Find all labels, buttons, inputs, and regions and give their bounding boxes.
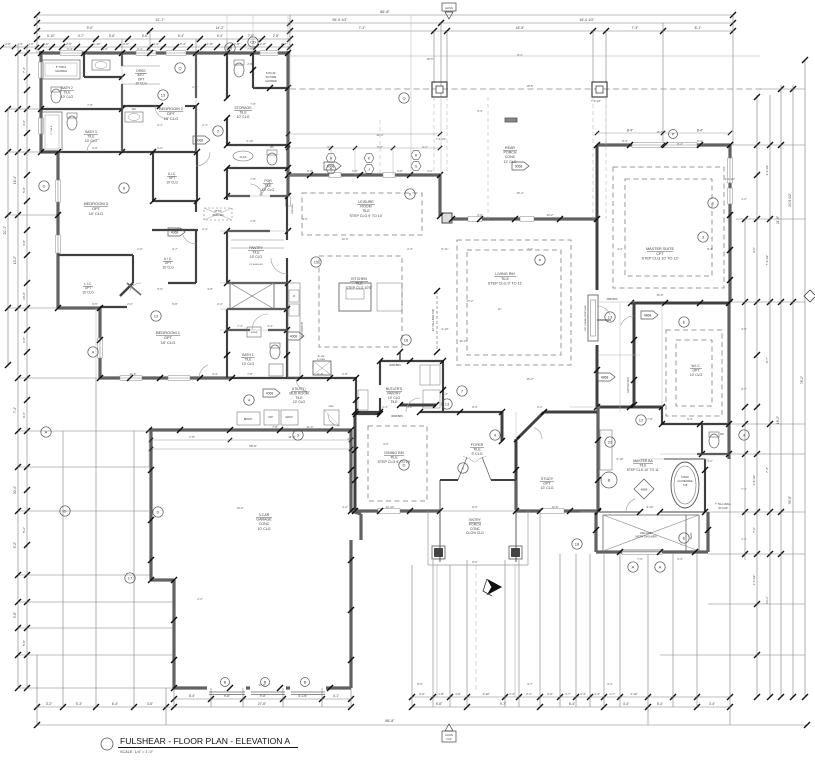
- svg-text:3068 BRS: 3068 BRS: [389, 363, 401, 367]
- svg-text:Q: Q: [178, 66, 181, 71]
- svg-text:4'-2": 4'-2": [707, 459, 713, 463]
- svg-text:13: 13: [154, 314, 159, 319]
- svg-text:7'-9 1/2": 7'-9 1/2": [591, 99, 601, 103]
- dimension column left 1: [7, 109, 9, 365]
- wc toilet right of clas: [267, 153, 277, 165]
- svg-text:7'-6": 7'-6": [189, 435, 195, 439]
- svg-text:3'-8": 3'-8": [207, 287, 213, 291]
- svg-text:8'-6": 8'-6": [417, 682, 423, 686]
- svg-text:1'-4": 1'-4": [580, 692, 586, 696]
- svg-text:95'-9 1/2": 95'-9 1/2": [332, 18, 348, 22]
- circled tags: [175, 63, 185, 73]
- interior wall: shower divider bath2: [83, 53, 85, 77]
- svg-text:7' TALL WALL: 7' TALL WALL: [715, 502, 732, 506]
- door arc study: [534, 428, 542, 439]
- pentagon door tags: [193, 136, 210, 144]
- svg-text:BATH 1: BATH 1: [242, 353, 254, 357]
- wall: utility top interior: [232, 377, 356, 379]
- extension lines right walls: [760, 88, 805, 90]
- svg-text:30'-4": 30'-4": [13, 486, 17, 494]
- dimension row bottom left: [37, 706, 351, 708]
- svg-text:4'-6": 4'-6": [752, 247, 756, 253]
- svg-text:16'-0 1/2": 16'-0 1/2": [579, 18, 595, 22]
- svg-text:TILE: TILE: [63, 90, 71, 94]
- dimension row top 3: [37, 30, 733, 32]
- interior wall: mud hall: [356, 413, 380, 415]
- corner post leisure: [442, 213, 452, 223]
- door arc storage: [260, 182, 270, 196]
- door arc master hall: [597, 306, 610, 315]
- wall: master bath left exterior: [596, 407, 599, 512]
- svg-text:DINING RM: DINING RM: [384, 451, 403, 455]
- svg-text:76'-2": 76'-2": [800, 376, 804, 384]
- svg-text:1'-4": 1'-4": [509, 692, 515, 696]
- svg-text:7'-3": 7'-3": [632, 26, 640, 30]
- svg-text:18: 18: [575, 542, 580, 547]
- foyer entry double doors: [458, 457, 467, 480]
- dimension column right 6: [804, 60, 806, 697]
- svg-text:6'-4": 6'-4": [687, 417, 693, 421]
- svg-text:4'-6 1/2": 4'-6 1/2": [765, 165, 769, 176]
- interior wall: pantry top: [227, 230, 270, 232]
- wall: entry porch right: [515, 480, 517, 562]
- svg-text:8'-6": 8'-6": [472, 405, 478, 409]
- svg-text:POR: POR: [264, 179, 272, 183]
- svg-text:7'-8": 7'-8": [247, 372, 253, 376]
- svg-text:8'-4": 8'-4": [697, 139, 703, 143]
- wall: bath right lower: [706, 512, 709, 552]
- align tag bottom: [445, 724, 453, 731]
- svg-text:PORCH: PORCH: [504, 151, 517, 155]
- svg-text:13' CLG: 13' CLG: [540, 486, 553, 490]
- interior wall: wc row bottom / por top: [227, 167, 288, 169]
- svg-text:11'-6": 11'-6": [288, 435, 295, 439]
- wall: study diagonal: [517, 412, 544, 439]
- svg-text:4'-2": 4'-2": [342, 505, 348, 509]
- svg-text:FULSHEAR - FLOOR PLAN - E: FULSHEAR - FLOOR PLAN - ELEVATION A: [120, 736, 290, 746]
- svg-text:SEAT: SEAT: [689, 532, 693, 539]
- wall: shower bottom exterior: [596, 550, 708, 553]
- wall: wic step: [661, 407, 663, 424]
- interior wall: drsg right x196: [195, 53, 197, 98]
- svg-text:8'-8": 8'-8": [377, 145, 383, 149]
- svg-text:5' TUB &: 5' TUB &: [56, 65, 67, 69]
- svg-text:TILE: TILE: [501, 277, 509, 281]
- svg-text:TILE: TILE: [264, 183, 272, 187]
- svg-text:10' CLG: 10' CLG: [162, 265, 174, 269]
- svg-text:9'-7": 9'-7": [527, 682, 533, 686]
- svg-text:4'-2": 4'-2": [617, 247, 623, 251]
- garage interior dim rows: [151, 439, 351, 441]
- svg-text:4068: 4068: [196, 139, 204, 143]
- svg-text:WC: WC: [132, 108, 136, 111]
- svg-text:MASTER BA: MASTER BA: [633, 459, 653, 463]
- interior wall: future shower bottom: [253, 87, 288, 89]
- svg-text:11'-8": 11'-8": [317, 372, 324, 376]
- wc toilet master: [709, 434, 719, 448]
- svg-text:REAR: REAR: [505, 146, 515, 150]
- svg-text:12'-10": 12'-10": [386, 505, 395, 509]
- shower seat divider: [685, 515, 687, 551]
- rear porch column left: [432, 82, 447, 97]
- interior wall: hall x196 lower: [195, 201, 197, 212]
- wall: entry porch left: [439, 480, 441, 562]
- master top windows: [632, 143, 697, 148]
- door arc pantry: [271, 258, 287, 274]
- kitchen island solid: [339, 283, 371, 311]
- window break bedroom1 left wall: [98, 338, 103, 358]
- wall: butlers pantry top: [380, 360, 443, 362]
- svg-text:9'-0": 9'-0": [87, 26, 95, 30]
- large circle B master bath: [601, 472, 617, 488]
- svg-text:3'-4": 3'-4": [709, 702, 715, 706]
- entry porch column right: [509, 546, 522, 559]
- svg-text:2'-0": 2'-0": [547, 692, 553, 696]
- clas oval: [233, 151, 253, 161]
- svg-text:5'-8": 5'-8": [342, 372, 348, 376]
- svg-text:ALONE/FREE: ALONE/FREE: [677, 480, 693, 483]
- svg-text:TILE: TILE: [87, 134, 95, 138]
- interior wall: bath1 top: [227, 329, 250, 331]
- svg-text:3080 BRS: 3080 BRS: [607, 298, 618, 301]
- svg-text:9'-11": 9'-11": [442, 247, 449, 251]
- svg-text:P: P: [672, 132, 675, 137]
- svg-text:3'-0": 3'-0": [43, 42, 49, 46]
- svg-text:11'-8": 11'-8": [130, 372, 137, 376]
- dimension column right 5: [792, 85, 794, 697]
- align tag top: [442, 3, 456, 11]
- door arc bedroom1: [199, 365, 208, 378]
- dimension row top 5: [41, 46, 290, 48]
- wall: garage right exterior: [349, 430, 352, 511]
- svg-text:FOYER: FOYER: [471, 443, 484, 447]
- svg-text:9'-8": 9'-8": [407, 405, 413, 409]
- dimension row bottom overall: [37, 724, 807, 726]
- svg-text:2'-10": 2'-10": [246, 139, 253, 143]
- svg-text:9'-0": 9'-0": [477, 213, 483, 217]
- svg-text:9'-8": 9'-8": [307, 169, 313, 173]
- porch interior dashed lines: [487, 97, 489, 219]
- svg-text:STORAGE: STORAGE: [234, 106, 252, 110]
- dimension row bottom right 2: [412, 706, 730, 708]
- svg-text:1'-2": 1'-2": [741, 197, 747, 201]
- svg-text:CONC: CONC: [505, 155, 516, 159]
- svg-text:18: 18: [404, 338, 409, 343]
- svg-text:PORCH: PORCH: [469, 522, 482, 526]
- svg-text:5'-4": 5'-4": [477, 109, 483, 113]
- svg-text:10' CLG: 10' CLG: [166, 180, 178, 184]
- svg-text:3'-4": 3'-4": [212, 372, 218, 376]
- ext lines above leisure wall: [330, 148, 332, 175]
- door arc garage entry: [328, 414, 340, 426]
- svg-text:5'-8": 5'-8": [172, 302, 178, 306]
- svg-text:4'-8": 4'-8": [22, 240, 26, 246]
- svg-text:3080 BRS: 3080 BRS: [292, 203, 294, 214]
- wall: master suite right exterior: [728, 145, 731, 302]
- door arc uic2: [183, 235, 196, 244]
- svg-text:TILE: TILE: [390, 400, 398, 404]
- master suite tray dashed inner: [625, 179, 712, 276]
- window break bath2 left wall: [39, 62, 44, 78]
- bath2 lav: [92, 60, 110, 70]
- wall: living bottom: [400, 404, 436, 407]
- svg-text:A: A: [659, 565, 662, 570]
- svg-text:PANTRY: PANTRY: [387, 391, 401, 395]
- diamond tag 4868 master bath: [634, 479, 654, 499]
- wall: leisure top exterior: [288, 173, 440, 176]
- svg-text:4068: 4068: [266, 392, 274, 396]
- svg-text:B: B: [224, 680, 227, 685]
- svg-text:15'-4": 15'-4": [516, 191, 523, 195]
- svg-text:31'-4": 31'-4": [376, 133, 383, 137]
- wall: study left: [515, 439, 518, 510]
- svg-text:STEP CLG 9' TO 10': STEP CLG 9' TO 10': [350, 214, 383, 218]
- dimension row bottom garage: [174, 698, 351, 700]
- svg-text:10'-2": 10'-2": [546, 213, 553, 217]
- svg-text:13'-1": 13'-1": [765, 596, 769, 604]
- window breaks top wall: [60, 51, 82, 56]
- svg-text:9'-4": 9'-4": [607, 682, 613, 686]
- svg-text:I: I: [462, 466, 463, 471]
- svg-text:18'-5": 18'-5": [526, 84, 533, 88]
- svg-text:2'-8": 2'-8": [281, 42, 287, 46]
- door arc butlers: [406, 398, 420, 412]
- svg-text:TILE: TILE: [639, 463, 647, 467]
- title circle: [101, 738, 113, 750]
- svg-text:8'-1": 8'-1": [517, 53, 523, 57]
- svg-text:15'-2": 15'-2": [526, 377, 533, 381]
- svg-text:7'-6 1/2": 7'-6 1/2": [765, 255, 769, 266]
- svg-text:10' CLG: 10' CLG: [89, 211, 104, 216]
- svg-text:9'-5": 9'-5": [92, 302, 98, 306]
- svg-text:3'-2": 3'-2": [46, 702, 52, 706]
- svg-text:13: 13: [161, 93, 166, 98]
- svg-text:8'-6": 8'-6": [472, 560, 478, 564]
- svg-text:16'-8": 16'-8": [656, 293, 663, 297]
- svg-text:CPT: CPT: [656, 252, 664, 256]
- svg-text:6'x6'x42": 6'x6'x42": [266, 71, 276, 75]
- rear porch roofline dashed: [290, 88, 763, 90]
- master shower enclosure with X: [603, 515, 699, 551]
- dimension column right 1: [744, 219, 746, 560]
- svg-text:39'-8": 39'-8": [788, 496, 792, 504]
- svg-text:D: D: [403, 463, 406, 468]
- bath3 tub vertical: [42, 112, 62, 152]
- svg-text:10'-0": 10'-0": [22, 292, 26, 300]
- svg-text:10' CLG: 10' CLG: [85, 139, 98, 143]
- svg-text:CONC: CONC: [470, 527, 481, 531]
- window breaks bedroom1 bottom wall: [120, 376, 142, 381]
- svg-text:W/ CAP: W/ CAP: [718, 506, 727, 510]
- attic pull-down dashed: [204, 208, 232, 220]
- svg-text:A: A: [45, 430, 48, 435]
- svg-text:2'-8": 2'-8": [250, 219, 256, 223]
- svg-text:4868: 4868: [641, 488, 648, 492]
- dimension row top 1 (86-8): [37, 14, 733, 16]
- svg-text:1'-7": 1'-7": [609, 692, 615, 696]
- interior extension lines vertical: [95, 308, 97, 378]
- svg-text:3-CAR: 3-CAR: [259, 513, 270, 517]
- wall: garage top exterior: [149, 428, 351, 431]
- interior wall: uic2 top: [152, 229, 198, 231]
- leisure room tray ceiling dashed: [302, 193, 422, 235]
- svg-text:8'-4": 8'-4": [189, 694, 195, 698]
- door arc utility: [296, 378, 310, 392]
- svg-text:1'-8": 1'-8": [455, 692, 461, 696]
- svg-text:9'-6": 9'-6": [22, 412, 26, 418]
- wall: butlers pantry right: [442, 361, 444, 411]
- svg-text:2'-4": 2'-4": [202, 227, 208, 231]
- svg-text:5'-10": 5'-10": [47, 34, 55, 38]
- svg-text:BATH 3: BATH 3: [85, 130, 97, 134]
- wall: left block left exterior upper: [39, 51, 42, 152]
- svg-text:16'-2": 16'-2": [776, 416, 780, 424]
- dimension column left 2: [17, 45, 19, 688]
- wall: rear porch south exterior (living top): [452, 217, 597, 220]
- svg-text:7'-4": 7'-4": [765, 467, 769, 473]
- svg-text:10' CLG: 10' CLG: [135, 82, 147, 86]
- interior wall: uic2 right: [195, 230, 197, 283]
- svg-text:WASH: WASH: [285, 416, 292, 419]
- svg-text:10' CLG: 10' CLG: [262, 188, 275, 192]
- bath1 shower: [247, 327, 261, 337]
- door arc drsg: [155, 106, 168, 119]
- door arc bath3: [87, 139, 100, 152]
- svg-text:9'-8": 9'-8": [397, 169, 403, 173]
- door arc bath1: [252, 314, 268, 330]
- svg-text:TILE: TILE: [295, 396, 303, 400]
- wall: garage left step: [151, 578, 174, 581]
- svg-text:TILE: TILE: [239, 111, 247, 115]
- svg-text:SHOWER: SHOWER: [55, 69, 67, 73]
- svg-text:TILE: TILE: [390, 456, 398, 460]
- extension lines from top walls: [36, 15, 38, 53]
- wall: right exterior wic/wc: [727, 303, 730, 459]
- svg-text:BUTLER'S: BUTLER'S: [386, 387, 403, 391]
- svg-text:H: H: [415, 154, 418, 158]
- svg-text:4068: 4068: [290, 335, 298, 339]
- drsg closet shelf: [122, 65, 160, 67]
- svg-text:B: B: [608, 478, 611, 483]
- wall: storage right exterior: [286, 51, 289, 196]
- wall: bedroom3 left exterior: [56, 152, 59, 308]
- interior extension lines horizontal: [8, 108, 41, 110]
- svg-text:SCALE: 1/4" = 1'-0": SCALE: 1/4" = 1'-0": [120, 750, 154, 754]
- walkway lines from entry porch: [436, 565, 438, 697]
- wall junction ticks: [38, 50, 44, 56]
- wic shelving dashed: [666, 330, 722, 416]
- dim row above leisure wall: [288, 147, 440, 149]
- bath2 tub: [42, 60, 80, 79]
- svg-text:8'-4": 8'-4": [677, 142, 683, 146]
- svg-text:3'-8 1/2": 3'-8 1/2": [752, 475, 756, 486]
- svg-text:BATH 2: BATH 2: [61, 86, 73, 90]
- svg-text:2'-6": 2'-6": [192, 85, 198, 89]
- svg-text:9068: 9068: [327, 165, 335, 169]
- svg-text:16'-4": 16'-4": [13, 176, 17, 184]
- title underline: [118, 747, 298, 749]
- svg-text:Q: Q: [402, 96, 405, 101]
- interior wall: uic1 bottom: [153, 200, 197, 202]
- utility bench/dry/wash: [237, 412, 260, 425]
- leisure top windows: [329, 173, 341, 178]
- hex tags above leisure wall: [326, 154, 336, 163]
- svg-text:10'-2": 10'-2": [13, 256, 17, 264]
- garage door B tags: [221, 678, 230, 687]
- dimension row top 4: [37, 38, 290, 40]
- svg-text:4'-0": 4'-0": [123, 42, 129, 46]
- wall: master suite top exterior: [597, 143, 730, 146]
- chase with X brace: [230, 283, 274, 309]
- svg-text:E: E: [683, 536, 686, 541]
- svg-text:2'-6": 2'-6": [127, 302, 133, 306]
- kitchen counter right: [377, 283, 402, 311]
- svg-text:OPT LINEAR FIREPLACE: OPT LINEAR FIREPLACE: [584, 305, 587, 331]
- svg-text:TILE: TILE: [362, 209, 370, 213]
- svg-text:3'-0": 3'-0": [302, 217, 308, 221]
- living room tray ceiling dashed outer: [457, 240, 571, 365]
- svg-text:KITCHEN: KITCHEN: [351, 277, 367, 281]
- svg-text:W.I.C.: W.I.C.: [691, 364, 700, 368]
- wall: bath/shower divider y512: [598, 511, 640, 513]
- wall: leisure right exterior: [438, 175, 441, 216]
- dim row 31-4: [288, 133, 440, 135]
- north arrow: [488, 580, 501, 594]
- porch south windows: [468, 217, 482, 222]
- svg-text:3'-10": 3'-10": [482, 692, 489, 696]
- svg-text:7'-8": 7'-8": [250, 177, 256, 181]
- svg-text:STEP CLG 9' TO 11': STEP CLG 9' TO 11': [488, 282, 523, 286]
- svg-text:1'-0": 1'-0": [28, 42, 34, 46]
- svg-text:MSTR SHOWER: MSTR SHOWER: [635, 535, 656, 539]
- svg-text:4'-2": 4'-2": [422, 145, 428, 149]
- door arc lic diagonal: [127, 283, 141, 295]
- svg-text:8'-4": 8'-4": [622, 139, 628, 143]
- interior wall: lic right: [132, 255, 134, 283]
- svg-text:J: J: [368, 168, 370, 172]
- svg-text:A: A: [632, 565, 635, 570]
- svg-text:15' SHELVES: 15' SHELVES: [249, 264, 263, 266]
- door arc bedroom3: [196, 152, 210, 166]
- svg-text:18'-5": 18'-5": [516, 26, 525, 30]
- wall: dining bottom exterior: [355, 509, 440, 512]
- interior wall: por bottom: [227, 195, 250, 197]
- wall: left block top exterior: [39, 51, 290, 54]
- svg-text:7'-8": 7'-8": [87, 103, 93, 107]
- wall: wc bottom: [697, 453, 729, 455]
- svg-text:8'-4": 8'-4": [697, 129, 703, 133]
- svg-text:FLR: FLR: [447, 737, 452, 741]
- svg-text:3'-6": 3'-6": [22, 120, 26, 126]
- garage door panels: [209, 691, 245, 693]
- svg-text:BENCH: BENCH: [244, 418, 253, 421]
- svg-text:9'-8": 9'-8": [177, 227, 183, 231]
- svg-text:TILE: TILE: [355, 282, 363, 286]
- svg-text:UTILITY /: UTILITY /: [292, 387, 307, 391]
- wall: butlers/dining divider y412: [355, 411, 380, 413]
- bath3 lav: [125, 112, 143, 122]
- dimension column right 3: [769, 95, 771, 697]
- svg-text:4'-2": 4'-2": [427, 169, 433, 173]
- svg-text:10' CLG: 10' CLG: [690, 373, 703, 377]
- svg-text:E: E: [683, 320, 686, 325]
- svg-text:5'-4": 5'-4": [677, 557, 683, 561]
- svg-text:LEISURE: LEISURE: [358, 200, 374, 204]
- wall: bedroom1 bottom exterior: [100, 376, 232, 379]
- porch column extension lines: [433, 97, 435, 175]
- wall: garage left lower exterior: [172, 580, 175, 688]
- svg-text:CONC: CONC: [259, 522, 270, 526]
